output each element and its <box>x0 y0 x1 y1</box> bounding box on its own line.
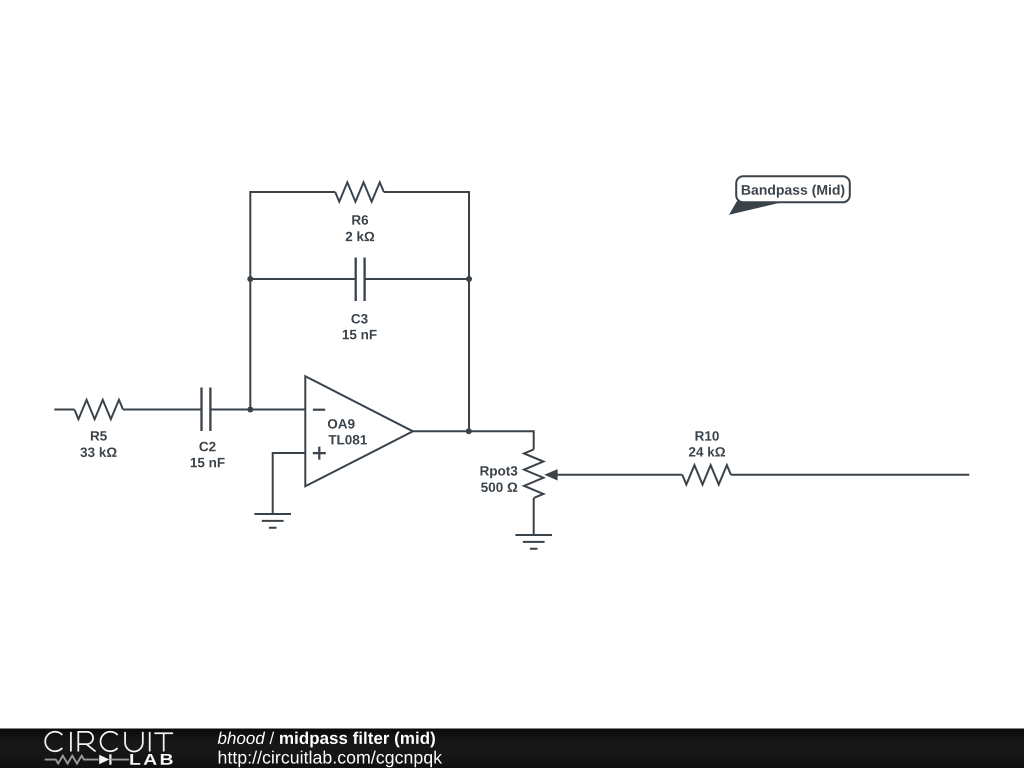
wire: C2 to op-amp inverting input <box>211 409 305 411</box>
value TL081 <box>329 435 367 445</box>
label C2 <box>199 442 215 452</box>
node: junction dot C3 left <box>247 276 253 282</box>
node: junction dot output <box>466 428 472 434</box>
wire: wiper to R10 <box>551 474 682 476</box>
node: junction dot input/feedback <box>247 407 253 413</box>
logo resistor-diode glyph <box>45 754 129 764</box>
wire: pot bottom to ground GND2 <box>533 498 535 535</box>
label Rpot3 <box>481 466 518 478</box>
wire: feedback left vertical and top left corner to R6 <box>250 192 335 410</box>
wire: C3 row right <box>366 278 470 280</box>
op-amp plus pin mark <box>313 447 326 460</box>
resistor R5 <box>74 400 123 419</box>
potentiometer wiper arrow <box>544 469 557 480</box>
wire: R10 to right end <box>731 474 969 476</box>
ground GND2 <box>515 535 552 549</box>
label C3 <box>351 314 367 324</box>
potentiometer Rpot3 element <box>524 449 543 498</box>
node: junction dot C3 right <box>466 276 472 282</box>
logo CIRCUIT wordmark <box>45 732 173 752</box>
capacitor C3 <box>356 258 365 302</box>
footer url line 2 <box>219 751 442 768</box>
value C2 15 nF <box>191 458 225 467</box>
resistor R10 <box>682 465 731 484</box>
capacitor C2 <box>202 388 211 432</box>
annotation bubble Bandpass (Mid) <box>729 176 850 215</box>
wire: R6 to top right corner and feedback right vertical <box>384 192 469 431</box>
value Rpot3 500 Ohm <box>481 483 517 493</box>
label R6 <box>352 215 368 225</box>
label OA9 <box>328 419 355 429</box>
wire: R5 to C2 <box>123 409 201 411</box>
label R5 <box>91 431 107 440</box>
value R6 2 kOhm <box>346 231 375 241</box>
footer attribution line 1 <box>218 732 435 748</box>
logo LAB text <box>130 754 172 765</box>
wire: op-amp output to pot top <box>413 431 534 449</box>
label R10 <box>696 431 719 441</box>
footer black bar <box>0 729 1024 768</box>
value R10 24 kOhm <box>689 447 725 457</box>
resistor R6 <box>335 182 384 201</box>
value C3 15 nF <box>343 330 377 339</box>
op-amp minus pin mark <box>313 409 325 411</box>
ground GND1 <box>254 514 291 528</box>
wire: input left to R5 <box>54 409 74 411</box>
wire: non-inverting input down to ground GND1 <box>273 453 306 514</box>
op-amp U1 OA9 triangle <box>305 376 413 486</box>
value R5 33 kOhm <box>80 447 116 457</box>
wire: C3 row left <box>250 278 354 280</box>
